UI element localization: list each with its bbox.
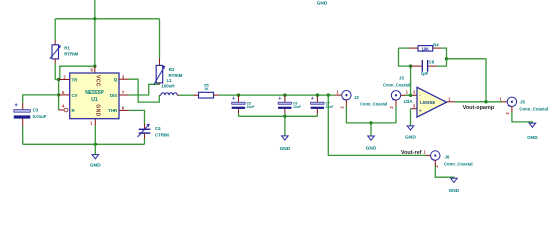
pin 4 stub of U1 (R) with bubble (59, 109, 64, 111)
wire R4 right lead (433, 47, 441, 49)
svg-text:GND: GND (280, 146, 291, 152)
wire R4 left lead (399, 47, 410, 49)
wire L1 to R5 (179, 94, 194, 96)
wire feedback left vertical (399, 48, 411, 95)
wire Q to L1 (129, 79, 160, 102)
ground symbol below U1 (90, 144, 101, 168)
pin 7 stub of U1 (DIS) (119, 94, 129, 96)
svg-text:Vout-ref: Vout-ref (401, 150, 422, 156)
wire pin8 node to reset rail (60, 66, 95, 79)
capacitor C5 (232, 95, 245, 116)
svg-text:10uF: 10uF (247, 105, 255, 109)
junction C8 left node (409, 64, 412, 67)
svg-text:Conn_Coaxial: Conn_Coaxial (383, 82, 410, 87)
wire +input ground drop (410, 109, 412, 126)
junction C6 (283, 93, 286, 96)
svg-text:J2: J2 (354, 95, 359, 100)
svg-text:R1: R1 (64, 46, 70, 51)
pin 6 stub of U1 (THR) (119, 109, 129, 111)
svg-text:C3: C3 (33, 107, 39, 112)
wire THR to C4 (129, 110, 145, 124)
svg-text:Vout-opamp: Vout-opamp (463, 105, 495, 111)
svg-text:THR: THR (108, 108, 118, 113)
wire R5 to C5 junction (214, 94, 220, 96)
op-amp U3A LM358 (417, 87, 447, 117)
junction cap bottom rail (283, 115, 286, 118)
svg-text:R2: R2 (169, 67, 175, 72)
svg-text:U3A: U3A (404, 99, 414, 104)
svg-text:GND: GND (405, 135, 416, 141)
svg-text:U1: U1 (91, 97, 98, 103)
wire main rail to J2 (239, 94, 336, 96)
svg-text:0.01uF: 0.01uF (33, 114, 47, 119)
junction C5 (237, 93, 240, 96)
wire capacitor bottom rail (239, 115, 318, 117)
pin 2 stub of J6 (434, 160, 436, 166)
pin 2 stub of J2 (345, 100, 347, 106)
wire VCC drop to U1 pin 8 (94, 19, 96, 66)
IC U1 NE555P body (70, 73, 119, 119)
capacitor C4 (trimmer) (138, 124, 151, 145)
junction C7 top on rail (316, 93, 319, 96)
svg-text:GND: GND (366, 145, 377, 151)
wire R1 bottom lead (54, 59, 56, 64)
svg-text:+: + (14, 103, 18, 109)
pin 2 stub of J3 (395, 100, 397, 106)
wire R2 bottom lead (159, 83, 161, 84)
junction top rail (93, 17, 96, 20)
capacitor C8 (411, 59, 447, 72)
wire Vout-ref from cap rail junction (328, 95, 426, 155)
svg-text:10uF: 10uF (326, 105, 334, 109)
connector J6 Conn_Coaxial (431, 151, 440, 160)
capacitor C6 (278, 95, 291, 116)
svg-text:+: + (311, 96, 314, 102)
junction output feedback (484, 100, 487, 103)
pin 5 stub of U1 (CV) (59, 94, 70, 96)
svg-text:J6: J6 (445, 155, 450, 160)
svg-text:Conn_Coaxial: Conn_Coaxial (360, 102, 387, 107)
wire J6 ground (435, 166, 454, 178)
pin 1 stub of U1 (GND) (94, 119, 96, 126)
capacitor C7 (311, 95, 324, 116)
svg-text:Q: Q (114, 77, 118, 82)
ground symbol below J5 (527, 123, 538, 141)
wire bottom ground rail (23, 143, 145, 145)
junction U1 pin8 node (93, 65, 96, 68)
wire J2 ground drop (346, 106, 396, 123)
wire feedback to output (447, 59, 487, 102)
svg-text:10K: 10K (421, 46, 429, 51)
svg-text:VCC: VCC (94, 75, 100, 87)
svg-text:J5: J5 (520, 100, 525, 105)
wire opamp output to J5 (455, 101, 502, 103)
svg-text:GND: GND (527, 135, 538, 141)
connector J5 Conn_Coaxial (507, 97, 516, 106)
pin 3 stub of U1 (Q) (119, 78, 129, 80)
connector J3 Conn_Coaxial (391, 91, 400, 100)
wire U1 gnd drop (94, 126, 96, 145)
svg-text:LM358: LM358 (420, 100, 435, 106)
inductor L1 (159, 93, 179, 96)
svg-text:GND: GND (90, 163, 101, 169)
svg-text:+: + (278, 96, 281, 102)
wire J3 ground drop (395, 106, 397, 123)
svg-text:CV: CV (72, 93, 78, 98)
svg-text:J3: J3 (399, 75, 404, 80)
junction J2/J3 ground rail (369, 121, 372, 124)
pin 1 stub of U3A (output) (447, 101, 456, 103)
ground symbol below J2/J3 (366, 123, 377, 151)
resistor R4 (418, 46, 433, 52)
wire DIS to R2 (129, 84, 160, 95)
svg-text:Conn_Coaxial: Conn_Coaxial (519, 106, 548, 111)
pin 3 stub of U3A (+) (411, 108, 418, 110)
svg-text:RTRIM: RTRIM (64, 51, 78, 56)
resistor R5 (199, 92, 214, 98)
svg-text:Conn_Coaxial: Conn_Coaxial (444, 162, 473, 167)
ground symbol below capacitor bank (280, 116, 291, 152)
wire CV to C3 (23, 95, 59, 103)
svg-text:C4: C4 (155, 126, 161, 131)
pin 2 stub of J5 (511, 107, 513, 113)
resistor R1 (trimmer) (50, 45, 61, 59)
wire J5 ground (512, 112, 533, 123)
wire R1 top lead (54, 19, 56, 41)
svg-text:GND: GND (449, 188, 460, 194)
resistor R2 (trimmer) (154, 65, 165, 84)
svg-text:10uF: 10uF (293, 105, 301, 109)
svg-text:GND: GND (317, 1, 328, 7)
ground symbol below U3A (405, 126, 416, 141)
pin 2 stub of U1 (TR) (59, 79, 70, 81)
wire C3 bottom lead (22, 119, 24, 127)
svg-text:1pF: 1pF (421, 71, 429, 76)
wire left rail TR-CV-R (58, 80, 60, 111)
wire VCC top rail (55, 18, 159, 20)
pin 8 stub of U1 (94, 66, 96, 73)
junction ground rail (94, 143, 97, 146)
svg-text:+: + (419, 109, 422, 115)
svg-text:100uH: 100uH (161, 84, 174, 89)
wire R2 top lead from VCC rail (159, 19, 161, 58)
junction CV node (57, 93, 60, 96)
svg-text:NE555P: NE555P (85, 90, 104, 96)
svg-text:L1: L1 (167, 78, 173, 83)
wire VCC bus vertical from top edge (94, 0, 96, 19)
ground symbol below J6 (449, 178, 460, 194)
wire J3 pin1 to opamp inverting input (401, 94, 406, 96)
junction feedback tee (445, 57, 448, 60)
svg-text:C8: C8 (429, 60, 435, 65)
svg-text:DIS: DIS (110, 93, 117, 98)
junction TR node (57, 78, 60, 81)
junction inverting input node (409, 94, 412, 97)
junction Vout-ref tap (327, 93, 330, 96)
connector J2 Conn_Coaxial (342, 91, 351, 100)
svg-text:1K: 1K (204, 87, 209, 91)
svg-text:R4: R4 (433, 42, 439, 47)
svg-text:TR: TR (72, 77, 79, 82)
svg-text:GND: GND (94, 104, 100, 116)
svg-text:+: + (232, 96, 235, 102)
svg-text:CTRIM: CTRIM (155, 133, 169, 138)
capacitor C3 polarized (14, 103, 31, 119)
